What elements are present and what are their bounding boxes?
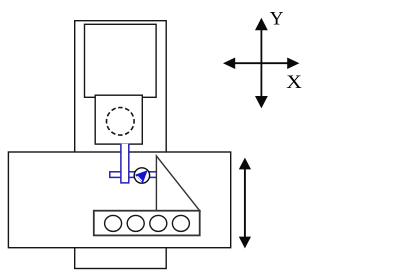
fixture hole 3 [150, 215, 167, 231]
ramp triangle on table [156, 156, 199, 211]
fixture block with holes [94, 211, 200, 236]
machine head (inner rectangle) [85, 24, 157, 97]
cross slide bar (horizontal blue bar) [110, 172, 158, 178]
svg-text:Y: Y [270, 8, 284, 29]
vertical double-headed arrow (table travel) [239, 158, 251, 249]
tool holder circle [134, 168, 149, 183]
dashed spindle-motor circle [107, 108, 135, 136]
axes cross: X axis horizontal double arrow [223, 58, 299, 70]
spindle quill (vertical blue bar, open at top) [121, 144, 129, 183]
svg-text:X: X [286, 72, 302, 93]
machine column (tall outer rectangle) [75, 21, 167, 269]
axes cross: Y axis vertical double arrow [255, 18, 268, 109]
quill housing (small rectangle) [95, 95, 142, 144]
blue cutter triangle [135, 170, 148, 183]
white fold slit in cutter triangle [137, 176, 142, 181]
fixture hole 2 [127, 215, 144, 231]
fixture hole 4 [172, 215, 189, 231]
worktable (large middle rectangle) [8, 152, 230, 248]
fixture hole 1 [105, 215, 122, 231]
